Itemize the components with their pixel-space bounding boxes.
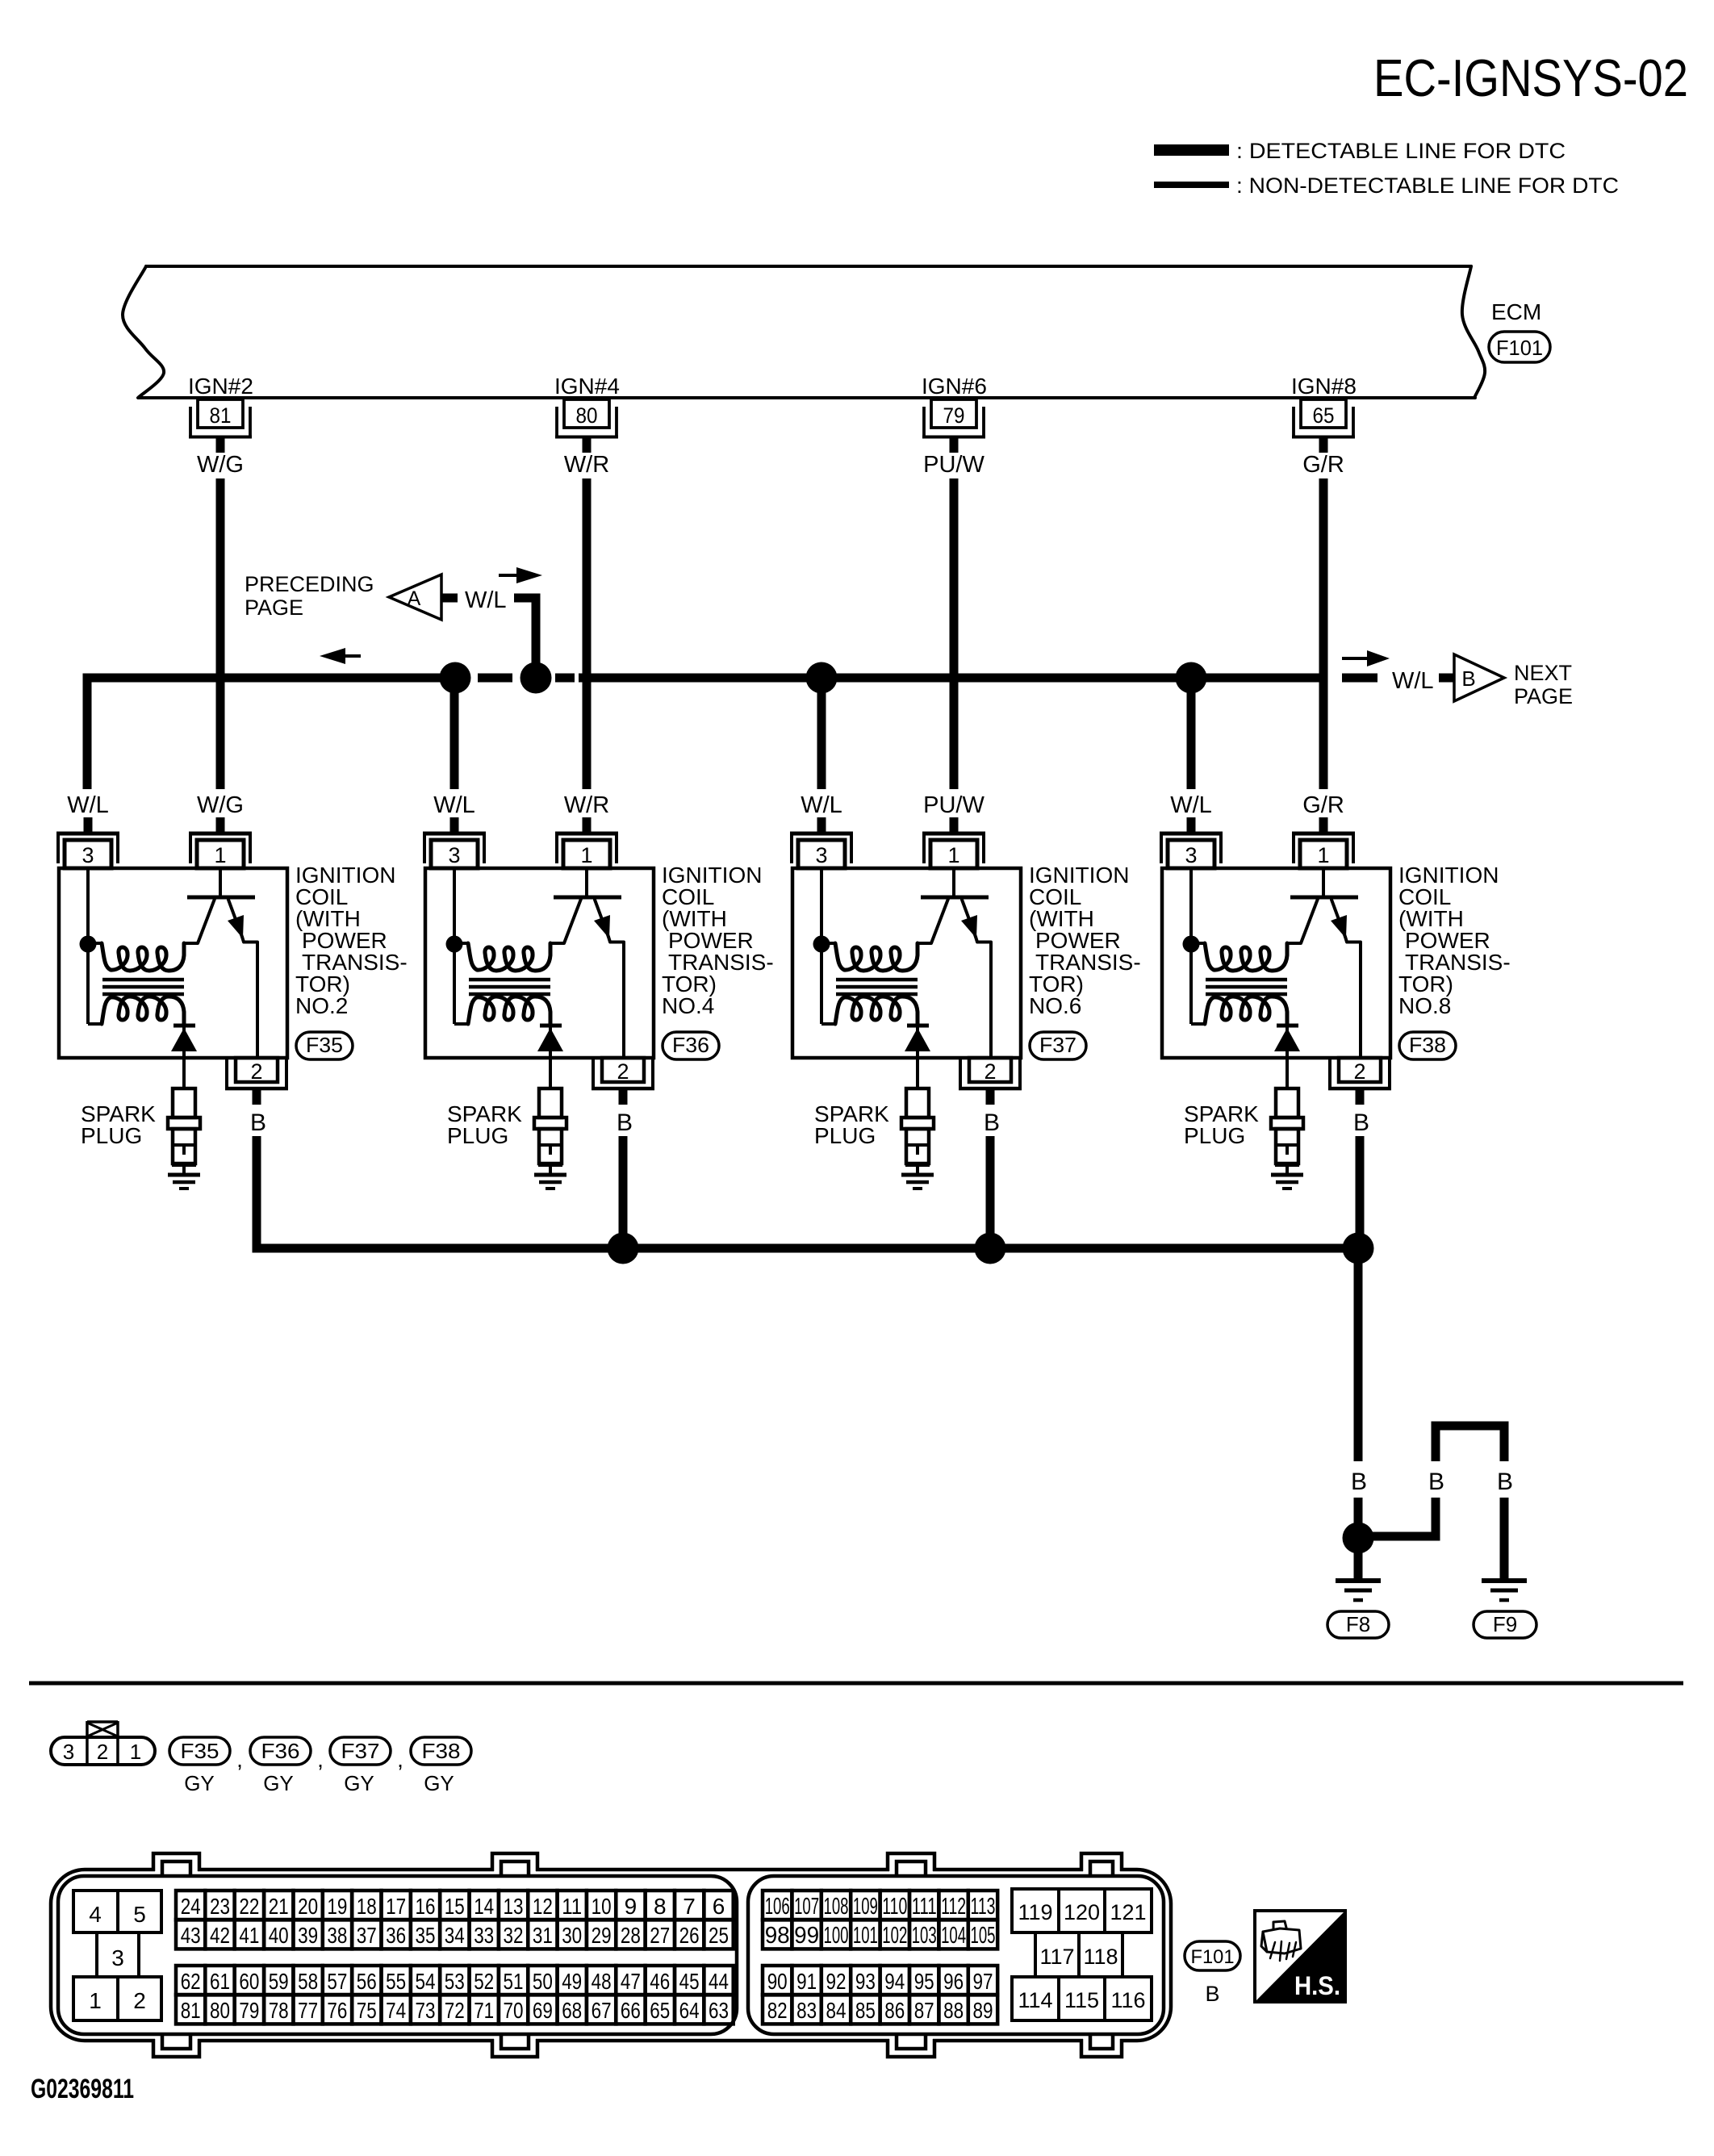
- coil U2 internal junction dot: [446, 936, 463, 953]
- wire B down to F9 ground: [1500, 1498, 1509, 1579]
- terminal cell 28: [616, 1920, 645, 1949]
- svg-text:27: 27: [650, 1923, 670, 1948]
- terminal cell 8: [646, 1891, 675, 1920]
- ignition coil U4 (F38) pin 3 bracket: [1160, 832, 1223, 836]
- coil U4 pin 2 bracket: [1328, 1059, 1331, 1090]
- terminal cell 39: [293, 1920, 322, 1949]
- svg-text:17: 17: [386, 1894, 406, 1919]
- ECM connector F101 oval: [1489, 332, 1550, 362]
- wire W/R into coil pin 1: [583, 817, 592, 832]
- connector oval F35 key: [169, 1737, 230, 1765]
- ignition coil U1 body box: [59, 868, 287, 1058]
- svg-text:W/G: W/G: [197, 452, 244, 478]
- terminal cell 90: [763, 1966, 792, 1995]
- terminal cell 60: [235, 1966, 264, 1995]
- terminal cell 59: [264, 1966, 293, 1995]
- svg-text:84: 84: [826, 1998, 847, 2023]
- coil U4 primary winding L1: [1205, 943, 1287, 971]
- svg-text:GY: GY: [344, 1771, 374, 1795]
- svg-text:114: 114: [1018, 1988, 1052, 2012]
- ECM pin 81 outer bracket: [189, 407, 192, 438]
- svg-text:F38: F38: [422, 1739, 461, 1763]
- coil connector pin-view pill 3-2-1: [51, 1737, 155, 1765]
- svg-text:11: 11: [562, 1894, 582, 1919]
- svg-text:EC-IGNSYS-02: EC-IGNSYS-02: [1373, 48, 1688, 107]
- coil U3 secondary diode D3: [907, 1024, 929, 1028]
- wire B from coil U3 pin 2 down to ground bus: [986, 1136, 995, 1248]
- terminal cell 36: [382, 1920, 411, 1949]
- svg-text:2: 2: [617, 1059, 629, 1084]
- branch wire to second ground: [1358, 1532, 1440, 1541]
- terminal cell 26: [675, 1920, 704, 1949]
- connector shell tab top: [155, 1856, 198, 1874]
- svg-text:60: 60: [239, 1969, 259, 1994]
- connector shell tab top: [494, 1856, 536, 1874]
- svg-text:PU/W: PU/W: [923, 792, 985, 818]
- ground connector F9 oval: [1474, 1611, 1536, 1638]
- svg-text:18: 18: [357, 1894, 377, 1919]
- wire W/G into coil pin 1: [216, 817, 225, 832]
- svg-text:ECM: ECM: [1491, 299, 1541, 324]
- connector shell tab bottom: [889, 2037, 933, 2055]
- svg-text:80: 80: [210, 1998, 230, 2023]
- svg-text:IGN#4: IGN#4: [554, 374, 620, 399]
- svg-text:PLUG: PLUG: [447, 1123, 508, 1148]
- svg-text:PAGE: PAGE: [1514, 684, 1573, 708]
- svg-text:56: 56: [357, 1969, 377, 1994]
- svg-text:F8: F8: [1346, 1612, 1370, 1636]
- wire W/L into coil2 pin 3: [450, 817, 459, 832]
- wire B from coil U1 pin 2 down to ground bus: [253, 1136, 261, 1248]
- svg-text:100: 100: [824, 1923, 849, 1949]
- wire to F8 ground: [1354, 1548, 1363, 1579]
- svg-text:3: 3: [63, 1740, 74, 1764]
- terminal cell 67: [587, 1995, 616, 2024]
- terminal cell 105: [968, 1920, 997, 1949]
- svg-text:B: B: [1205, 1982, 1219, 2006]
- svg-text:F36: F36: [261, 1739, 300, 1763]
- terminal cell 97: [968, 1966, 997, 1995]
- wire stub below coil U4 pin 2: [1356, 1090, 1365, 1105]
- svg-text:1: 1: [947, 843, 959, 867]
- svg-text:74: 74: [386, 1998, 406, 2023]
- svg-text:59: 59: [269, 1969, 289, 1994]
- svg-text:42: 42: [210, 1923, 230, 1948]
- terminal cell 81: [176, 1995, 205, 2024]
- svg-text:65: 65: [650, 1998, 670, 2023]
- svg-text:3: 3: [111, 1945, 124, 1970]
- terminal cell 46: [646, 1966, 675, 1995]
- svg-text:79: 79: [943, 403, 965, 428]
- svg-text:78: 78: [269, 1998, 289, 2023]
- svg-text:20: 20: [298, 1894, 318, 1919]
- ignition coil U4 body box: [1162, 868, 1390, 1058]
- terminal cell 102: [880, 1920, 909, 1949]
- svg-text:B: B: [1428, 1469, 1444, 1495]
- svg-text:,: ,: [397, 1747, 403, 1772]
- ignition coil U2 (F36) pin 3 bracket: [423, 832, 486, 836]
- terminal cell 72: [440, 1995, 469, 2024]
- svg-text:25: 25: [709, 1923, 729, 1948]
- svg-text:71: 71: [474, 1998, 494, 2023]
- svg-text:41: 41: [239, 1923, 259, 1948]
- ECM connector right half: [748, 1876, 1164, 2034]
- coil U2 pin 2 bracket: [592, 1059, 595, 1090]
- svg-text:B: B: [1353, 1109, 1369, 1136]
- svg-text:87: 87: [914, 1998, 934, 2023]
- svg-text:GY: GY: [263, 1771, 294, 1795]
- terminal cell 49: [558, 1966, 587, 1995]
- terminal cell 52: [470, 1966, 499, 1995]
- svg-text:NO.4: NO.4: [662, 993, 714, 1018]
- terminal cell 113: [968, 1891, 997, 1920]
- svg-text:109: 109: [853, 1894, 878, 1920]
- terminal cell 101: [851, 1920, 880, 1949]
- svg-text:6: 6: [713, 1894, 725, 1919]
- terminal cell 27: [646, 1920, 675, 1949]
- svg-text:72: 72: [445, 1998, 465, 2023]
- svg-text:31: 31: [533, 1923, 553, 1948]
- coil U3 primary winding L1: [835, 943, 918, 971]
- terminal cell 6: [704, 1891, 733, 1920]
- svg-text:,: ,: [317, 1747, 324, 1772]
- svg-text:2: 2: [984, 1059, 996, 1084]
- terminal cell 115: [1059, 1977, 1105, 2020]
- svg-text:3: 3: [448, 843, 460, 867]
- wire G/R from ECM pin 65 down to ignition coil: [1319, 478, 1328, 789]
- wire W/G from ECM pin 81 down to ignition coil: [216, 478, 225, 789]
- svg-text:10: 10: [592, 1894, 612, 1919]
- svg-text:F37: F37: [341, 1739, 380, 1763]
- svg-text:PLUG: PLUG: [1184, 1123, 1245, 1148]
- terminal cell 58: [293, 1966, 322, 1995]
- svg-text:30: 30: [562, 1923, 582, 1948]
- svg-text:94: 94: [884, 1969, 905, 1994]
- terminal cell 73: [411, 1995, 440, 2024]
- svg-text:G/R: G/R: [1302, 792, 1344, 818]
- ground junction dot: [1343, 1523, 1374, 1554]
- coil U1 transformer core: [102, 978, 184, 982]
- svg-text:98: 98: [765, 1923, 790, 1949]
- svg-text:23: 23: [210, 1894, 230, 1919]
- coil U1 pin 2 box: [236, 1058, 278, 1082]
- ignition coil U3 body box: [792, 868, 1021, 1058]
- spark plug SP3 ground: [901, 1173, 934, 1177]
- terminal cell 86: [880, 1995, 909, 2024]
- ECM pin 80 outer bracket: [555, 407, 558, 438]
- svg-text:7: 7: [683, 1894, 696, 1919]
- connector oval F38 key: [411, 1737, 471, 1765]
- svg-text:PLUG: PLUG: [81, 1123, 142, 1148]
- svg-text:67: 67: [592, 1998, 612, 2023]
- svg-text:,: ,: [236, 1747, 243, 1772]
- terminal cell 71: [470, 1995, 499, 2024]
- svg-text:F101: F101: [1191, 1946, 1235, 1968]
- svg-text:1: 1: [89, 1988, 102, 2013]
- svg-text:GY: GY: [184, 1771, 215, 1795]
- svg-text:B: B: [1497, 1469, 1513, 1495]
- connector oval F36 key: [250, 1737, 311, 1765]
- terminal cell 84: [821, 1995, 851, 2024]
- svg-text:A: A: [408, 587, 421, 610]
- svg-text:62: 62: [181, 1969, 201, 1994]
- ECM pin 65 terminal box: [1301, 399, 1346, 428]
- svg-text:2: 2: [97, 1740, 108, 1764]
- terminal cell 7: [675, 1891, 704, 1920]
- svg-text:111: 111: [912, 1894, 937, 1920]
- terminal cell 114: [1012, 1977, 1059, 2020]
- ECM pin 79 outer bracket: [922, 407, 926, 438]
- terminal cell 40: [264, 1920, 293, 1949]
- svg-text:3: 3: [1185, 843, 1197, 867]
- svg-text:53: 53: [445, 1969, 465, 1994]
- svg-text:IGN#2: IGN#2: [188, 374, 253, 399]
- terminal cell 116: [1105, 1977, 1152, 2020]
- svg-text:IGN#6: IGN#6: [922, 374, 987, 399]
- svg-text:99: 99: [794, 1923, 819, 1949]
- terminal cell 85: [851, 1995, 880, 2024]
- wire stub below coil U3 pin 2: [986, 1090, 995, 1105]
- terminal cell 30: [558, 1920, 587, 1949]
- connector shell tab bottom: [494, 2037, 536, 2055]
- svg-text:116: 116: [1110, 1988, 1145, 2012]
- legend detectable line sample: [1154, 144, 1229, 156]
- arrow pointing left on bus: [320, 648, 345, 664]
- terminal cell 77: [293, 1995, 322, 2024]
- svg-text:43: 43: [181, 1923, 201, 1948]
- terminal cell 95: [909, 1966, 939, 1995]
- svg-text:112: 112: [941, 1894, 966, 1920]
- coil U4 connector oval F38: [1399, 1032, 1456, 1059]
- connector oval F37 key: [330, 1737, 391, 1765]
- terminal cell 63: [704, 1995, 733, 2024]
- coil U4 secondary diode D4: [1277, 1024, 1298, 1028]
- svg-text:B: B: [617, 1109, 633, 1136]
- connector shell tab bottom: [155, 2037, 198, 2055]
- terminal cell 57: [323, 1966, 352, 1995]
- coil U3 internal junction dot: [813, 936, 830, 953]
- terminal cell 82: [763, 1995, 792, 2024]
- svg-text:1: 1: [130, 1740, 141, 1764]
- terminal cell 33: [470, 1920, 499, 1949]
- svg-text:69: 69: [533, 1998, 553, 2023]
- coil U2 secondary diode D2: [540, 1024, 562, 1028]
- terminal cell 83: [792, 1995, 821, 2024]
- terminal cell 99: [792, 1920, 821, 1949]
- svg-text:15: 15: [445, 1894, 465, 1919]
- svg-text:36: 36: [386, 1923, 406, 1948]
- terminal cell 98: [763, 1920, 792, 1949]
- svg-text:103: 103: [912, 1923, 937, 1949]
- svg-text:W/R: W/R: [564, 452, 609, 478]
- svg-text:13: 13: [504, 1894, 524, 1919]
- svg-text:104: 104: [941, 1923, 966, 1949]
- svg-text:44: 44: [709, 1969, 729, 1994]
- svg-text:70: 70: [504, 1998, 524, 2023]
- arrow pointing right near next page: [1342, 657, 1367, 660]
- svg-text:40: 40: [269, 1923, 289, 1948]
- ignition coil U3 (F37) pin 3 bracket: [790, 832, 853, 836]
- terminal cell 96: [939, 1966, 968, 1995]
- connector shell tab top: [1083, 1856, 1120, 1874]
- svg-text:PAGE: PAGE: [245, 595, 303, 620]
- W/L bus left corner down to coil1 pin 3: [83, 674, 92, 790]
- svg-text:89: 89: [973, 1998, 993, 2023]
- terminal cell 16: [411, 1891, 440, 1920]
- svg-text:5: 5: [133, 1902, 146, 1927]
- svg-text:NO.6: NO.6: [1029, 993, 1081, 1018]
- bus dash segment right: [1342, 674, 1377, 683]
- wire W/R from ECM pin 80 down to ignition coil: [583, 478, 592, 789]
- connector shell tab bottom: [1083, 2037, 1120, 2055]
- coil U1 primary winding L1: [102, 943, 184, 971]
- svg-text:55: 55: [386, 1969, 406, 1994]
- wire W/L from bus dot down to coil2 pin 3: [450, 678, 459, 789]
- terminal cell 75: [352, 1995, 381, 2024]
- svg-text:G/R: G/R: [1302, 452, 1344, 478]
- svg-text:117: 117: [1039, 1945, 1074, 1969]
- coil U3 pin 2 bracket: [959, 1059, 962, 1090]
- terminal cell 80: [205, 1995, 234, 2024]
- svg-text:79: 79: [239, 1998, 259, 2023]
- terminal cell 22: [235, 1891, 264, 1920]
- terminal cell 104: [939, 1920, 968, 1949]
- coil U4 internal junction dot: [1183, 936, 1200, 953]
- svg-text:1: 1: [1317, 843, 1329, 867]
- bridge over to F9 ground: [1432, 1422, 1509, 1431]
- terminal cell 117: [1035, 1932, 1079, 1977]
- aux connector cell 1: [73, 1977, 118, 2020]
- wire W/L from triangle A down to bus: [514, 594, 541, 603]
- svg-text:73: 73: [416, 1998, 436, 2023]
- svg-text:115: 115: [1064, 1988, 1099, 2012]
- coil U1 pin 2 bracket: [225, 1059, 228, 1090]
- svg-text:W/L: W/L: [465, 587, 507, 613]
- terminal cell 66: [616, 1995, 645, 2024]
- coil U3 power transistor Q3: [952, 868, 955, 897]
- svg-text:2: 2: [1353, 1059, 1365, 1084]
- svg-text:38: 38: [327, 1923, 347, 1948]
- svg-text:91: 91: [796, 1969, 817, 1994]
- ECM pin 80 terminal box: [564, 399, 609, 428]
- coil U2 connector oval F36: [663, 1032, 719, 1059]
- svg-text:PU/W: PU/W: [923, 452, 985, 478]
- junction dot bus/coil2 W/L: [440, 662, 471, 694]
- svg-text:105: 105: [971, 1923, 996, 1949]
- wire PU/W into coil pin 1: [950, 817, 959, 832]
- svg-text:28: 28: [621, 1923, 641, 1948]
- svg-text:29: 29: [592, 1923, 612, 1948]
- spark plug SP2 ground: [534, 1173, 566, 1177]
- coil U1 pin 1 bracket: [189, 832, 252, 836]
- svg-text:F38: F38: [1409, 1033, 1446, 1057]
- stub from triangle A: [441, 594, 458, 603]
- svg-text:118: 118: [1083, 1945, 1118, 1969]
- aux connector cell 3: [95, 1932, 98, 1977]
- terminal cell 61: [205, 1966, 234, 1995]
- coil U2 pin 3 box: [431, 840, 478, 868]
- svg-text:68: 68: [562, 1998, 582, 2023]
- coil U4 pin 3 box: [1168, 840, 1214, 868]
- terminal cell 54: [411, 1966, 440, 1995]
- svg-text:22: 22: [239, 1894, 259, 1919]
- wire B down from bus: [1354, 1248, 1363, 1461]
- coil U4 pin 1 bracket: [1292, 832, 1355, 836]
- terminal cell 32: [499, 1920, 528, 1949]
- H.S. harness symbol: [1255, 1911, 1345, 2002]
- spark plug SP4 ground: [1271, 1173, 1303, 1177]
- terminal cell 76: [323, 1995, 352, 2024]
- terminal cell 88: [939, 1995, 968, 2024]
- svg-text:2: 2: [133, 1988, 146, 2013]
- ECM U1 box: [146, 265, 1471, 268]
- svg-text:W/L: W/L: [433, 792, 475, 818]
- coil U3 pin 1 box: [930, 840, 977, 868]
- coil U4 transformer core: [1206, 978, 1287, 982]
- wire stub below pin 79: [950, 438, 959, 453]
- svg-text:34: 34: [445, 1923, 465, 1948]
- junction dot B bus coil4 / down wire: [1343, 1233, 1374, 1264]
- terminal cell 94: [880, 1966, 909, 1995]
- svg-text:76: 76: [327, 1998, 347, 2023]
- svg-text:52: 52: [474, 1969, 494, 1994]
- terminal cell 79: [235, 1995, 264, 2024]
- svg-text:65: 65: [1313, 403, 1335, 428]
- coil U4 pin 2 box: [1339, 1058, 1381, 1082]
- terminal cell 24: [176, 1891, 205, 1920]
- junction dot bus/W-L feed: [520, 662, 552, 694]
- svg-text:3: 3: [82, 843, 94, 867]
- svg-text:102: 102: [882, 1923, 907, 1949]
- terminal cell 53: [440, 1966, 469, 1995]
- svg-text:W/L: W/L: [1392, 668, 1434, 694]
- svg-text:32: 32: [504, 1923, 524, 1948]
- svg-text:46: 46: [650, 1969, 670, 1994]
- terminal cell 109: [851, 1891, 880, 1920]
- coil U1 internal junction dot: [80, 936, 97, 953]
- bus dash segment: [555, 674, 575, 683]
- bus dash before triangle B: [1439, 674, 1454, 683]
- terminal cell 93: [851, 1966, 880, 1995]
- terminal cell 19: [323, 1891, 352, 1920]
- svg-text:G02369811: G02369811: [31, 2074, 134, 2104]
- terminal cell 119: [1012, 1889, 1059, 1932]
- svg-text:W/L: W/L: [801, 792, 842, 818]
- terminal cell 51: [499, 1966, 528, 1995]
- ground bus B horizontal: [253, 1136, 261, 1248]
- connector id F101 oval: [1185, 1941, 1240, 1970]
- svg-text:IGN#8: IGN#8: [1291, 374, 1357, 399]
- terminal cell 62: [176, 1966, 205, 1995]
- ignition coil U1 (F35) pin 3 bracket: [56, 832, 119, 836]
- terminal cell 29: [587, 1920, 616, 1949]
- svg-text:24: 24: [181, 1894, 201, 1919]
- terminal cell 108: [821, 1891, 851, 1920]
- svg-text:NEXT: NEXT: [1514, 661, 1572, 685]
- svg-text:110: 110: [882, 1894, 907, 1920]
- svg-text:80: 80: [576, 403, 598, 428]
- terminal cell 23: [205, 1891, 234, 1920]
- svg-text:W/R: W/R: [564, 792, 609, 818]
- svg-text:61: 61: [210, 1969, 230, 1994]
- svg-text:F35: F35: [181, 1739, 219, 1763]
- coil U2 transformer core: [469, 978, 550, 982]
- spark plug SP1 ground: [168, 1173, 200, 1177]
- svg-text:14: 14: [474, 1894, 494, 1919]
- svg-text:9: 9: [625, 1894, 638, 1919]
- terminal cell 106: [763, 1891, 792, 1920]
- junction dot bus/coil4 W/L: [1176, 662, 1207, 694]
